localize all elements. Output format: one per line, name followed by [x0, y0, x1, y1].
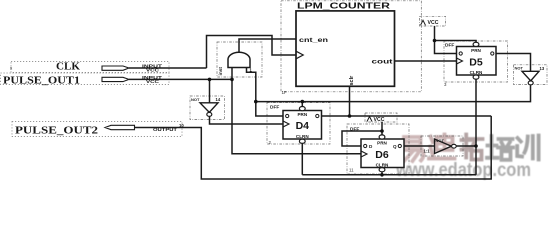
dff D5 dashed box	[444, 41, 508, 82]
svg-text:10: 10	[179, 123, 184, 128]
pin PULSE_OUT1 symbol	[102, 77, 129, 81]
svg-text:LPM_COUNTER: LPM_COUNTER	[297, 1, 390, 11]
svg-text:DFF: DFF	[270, 104, 279, 110]
svg-text:DFF: DFF	[445, 42, 454, 48]
vcc for D6 dashed box	[365, 113, 397, 122]
dff D6 dashed box	[347, 124, 409, 174]
and-gate inst1 dashed box	[217, 42, 262, 77]
watermark char xun	[517, 136, 538, 160]
dff D6 body	[361, 139, 404, 168]
svg-text:13: 13	[540, 66, 545, 71]
wire CLRN net down to bottom run	[475, 146, 477, 175]
svg-text:Q: Q	[393, 144, 397, 149]
watermark char pei	[487, 136, 513, 160]
wire NOT1 output to D4 clock	[210, 116, 284, 124]
wire D4 PRN stub	[301, 102, 303, 107]
svg-text:cnt_en: cnt_en	[299, 37, 328, 44]
junction D4.Q/sclr	[348, 114, 352, 118]
svg-text:CLRN: CLRN	[470, 70, 483, 75]
vcc D6 glyph	[367, 117, 372, 122]
pin CLK symbol	[102, 66, 129, 70]
vcc D5 glyph	[421, 20, 426, 25]
svg-text:14: 14	[216, 97, 221, 102]
watermark char yi	[403, 137, 424, 161]
wire counter cout to D5 clock	[395, 60, 457, 62]
svg-text:VCC: VCC	[146, 68, 159, 73]
svg-text:PULSE_OUT1: PULSE_OUT1	[3, 75, 80, 86]
inverter NOT2 body	[522, 71, 539, 81]
dff D5 PRN bubble	[473, 42, 479, 46]
wire NOT3 output to node	[456, 145, 476, 147]
dff D6 PRN bubble	[379, 135, 385, 139]
inverter inst2 dashed box	[190, 96, 225, 120]
and-gate body	[228, 52, 250, 67]
junction AND2-in/D4 D	[254, 100, 258, 104]
svg-text:CLK: CLK	[56, 61, 80, 72]
dff D6 CLRN bubble	[379, 168, 385, 172]
dff D4 dashed box	[267, 103, 330, 145]
junction VCC/D5	[433, 39, 437, 43]
wire junction to D6 PRN	[381, 131, 383, 135]
svg-text:x: x	[10, 66, 13, 71]
wire junction to D5 PRN	[435, 41, 477, 43]
svg-text:sclr: sclr	[349, 75, 355, 86]
svg-text:cout: cout	[372, 58, 394, 65]
dff D4 body	[283, 111, 322, 140]
svg-text:PULSE_OUT2: PULSE_OUT2	[15, 125, 98, 136]
wire NOT2 output long run left	[256, 85, 531, 101]
svg-text:D4: D4	[296, 120, 310, 132]
dff D5 body	[457, 47, 497, 76]
junction VCC/D6	[380, 129, 384, 133]
lpm_counter dashed box	[281, 1, 421, 92]
lpm_counter body	[296, 11, 395, 86]
wire PULSE_OUT1 down to NOT1	[209, 79, 211, 102]
svg-text:NOT: NOT	[191, 97, 200, 102]
dff D5 CLRN bubble	[473, 75, 479, 79]
inverter NOT2 bubble	[528, 81, 533, 85]
wire D6 Q to NOT3 input	[404, 145, 435, 147]
wire D4 Q long run right	[322, 115, 492, 117]
junction CLRN run/D6 CLRN	[380, 173, 384, 177]
dff D6 D pin circle	[364, 144, 367, 147]
inverter NOT1 bubble	[207, 112, 212, 116]
svg-text:2: 2	[269, 140, 272, 145]
svg-text:3: 3	[444, 82, 447, 87]
wire D5 Q to NOT2 input	[496, 54, 531, 72]
inverter NOT1 body	[200, 103, 218, 113]
junction D4 PRN	[301, 100, 305, 104]
wire AND output to cnt_en	[239, 39, 296, 53]
wire D6 CLRN stub	[381, 172, 383, 175]
pin PULSE_OUT1 dashed box	[1, 73, 170, 85]
dff D4 PRN bubble	[299, 107, 305, 111]
pin PULSE_OUT2 symbol	[105, 125, 135, 129]
wire VCC to junction D6	[381, 122, 383, 131]
watermark char tuo	[462, 135, 483, 160]
dff D4 Q pin circle	[316, 114, 319, 117]
svg-text:1F: 1F	[282, 90, 288, 95]
dff D5 Q pin circle	[491, 52, 494, 55]
wire PULSE_OUT1 down to D6 clock	[232, 79, 361, 153]
svg-text:PRN: PRN	[297, 112, 307, 117]
wire counter sclr down	[349, 86, 351, 116]
svg-text:CLRN: CLRN	[376, 162, 389, 167]
wire PULSE_OUT1 row	[129, 78, 232, 80]
wire CLK pin to corner	[129, 67, 207, 69]
dff D5 clock triangle	[457, 58, 463, 64]
dff D4 D pin circle	[286, 114, 289, 117]
svg-text:OUTPUT: OUTPUT	[153, 127, 178, 132]
dff D4 clock triangle	[283, 121, 289, 127]
dff D6 Q pin circle	[398, 144, 401, 147]
wire D4 CLRN down to clrn run	[301, 143, 303, 174]
svg-text:11: 11	[349, 168, 354, 173]
watermark char di	[429, 135, 455, 159]
wire junction to D5 D input	[435, 41, 457, 54]
inverter NOT3 body	[435, 139, 452, 154]
svg-text:NOT: NOT	[515, 66, 524, 71]
svg-text:PRN: PRN	[377, 141, 387, 146]
wire node to D4 D input	[256, 102, 283, 116]
svg-text:VCC: VCC	[374, 117, 385, 123]
junction PULSE_OUT1/NOT1	[208, 78, 212, 82]
inverter NOT3 bubble	[452, 144, 457, 148]
lpm_counter clock triangle	[296, 51, 303, 59]
svg-text:1:1: 1:1	[424, 149, 431, 154]
pin CLK dashed box	[11, 62, 169, 73]
junction NOT3/D5 CLRN	[474, 144, 478, 148]
junction PULSE_OUT1/AND	[230, 78, 234, 82]
svg-text:D6: D6	[375, 149, 389, 161]
svg-text:inst: inst	[218, 67, 224, 76]
svg-text:www.edatop.com: www.edatop.com	[395, 160, 531, 181]
pin PULSE_OUT2 dashed box	[12, 122, 182, 137]
inverter NOT3 dashed box	[421, 136, 463, 156]
svg-text:CLRN: CLRN	[296, 134, 309, 139]
wire CLK up and over to counter clock	[207, 36, 297, 69]
wire D5 CLRN down	[475, 79, 477, 146]
vcc for D5 dashed box	[420, 16, 446, 26]
svg-text:D5: D5	[469, 57, 483, 69]
wire VCC to junction D5	[434, 26, 436, 41]
dff D6 clock triangle	[361, 151, 367, 157]
wire junction to D6 D input	[342, 131, 382, 146]
wire CLRN bottom run	[302, 174, 476, 176]
wire D4.Q net down and along bottom to PULSE_OUT2	[135, 116, 492, 179]
dff D4 CLRN bubble	[299, 139, 305, 143]
svg-text:DFF: DFF	[350, 127, 359, 133]
svg-text:NOT: NOT	[436, 138, 445, 143]
dff D5 D pin circle	[459, 52, 462, 55]
svg-text:VCC: VCC	[146, 79, 159, 84]
wire AND left input leg	[231, 68, 233, 80]
svg-text:VCC: VCC	[428, 20, 439, 26]
svg-text:PRN: PRN	[471, 48, 481, 53]
inverter NOT2 dashed box	[514, 65, 548, 85]
wire AND right input leg down to node	[247, 68, 256, 102]
